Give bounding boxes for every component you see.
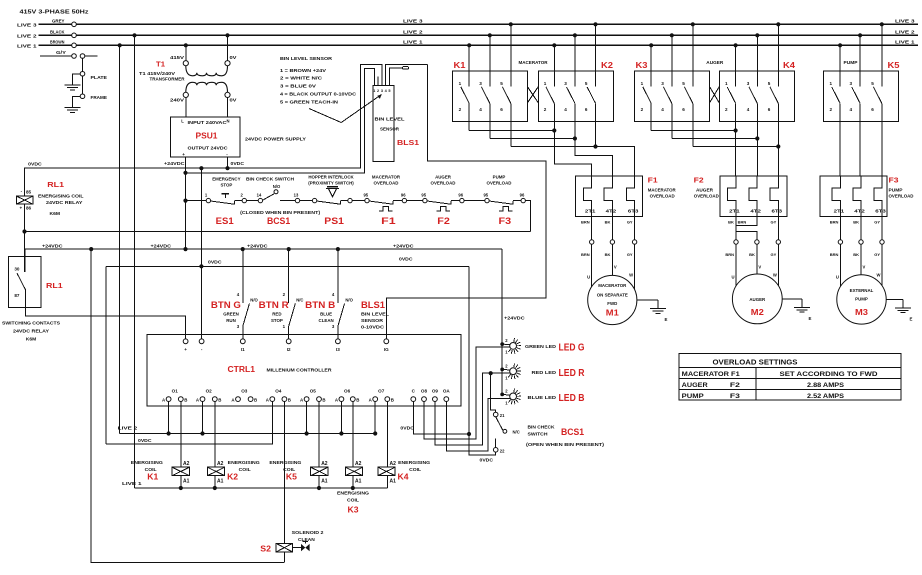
wire K4 contact 5 from supply [777,24,779,86]
wire K4 contact 3 from supply [756,35,758,86]
svg-text:O6: O6 [344,389,351,394]
svg-text:BTN G: BTN G [211,300,241,311]
svg-text:LIVE 2: LIVE 2 [118,426,138,431]
crimp end pin5 [403,67,409,70]
svg-text:ENERGISING: ENERGISING [337,491,370,496]
lamp green LED [510,343,517,350]
junction ES1 feed [183,199,187,203]
wire K2 contact 3 from supply [574,35,576,86]
svg-text:ENERGISING: ENERGISING [131,460,164,465]
junction K5 contact 5 [880,22,884,26]
contact blade at 208.4 [210,201,234,204]
svg-text:(PROXIMITY SWITCH): (PROXIMITY SWITCH) [308,180,354,185]
svg-text:1: 1 [373,89,375,93]
wire K2 contact 5 from supply [595,24,597,86]
junction K3 contact 3 [670,33,674,37]
wire K3 contact 3 from supply [671,35,673,86]
contact blade RL1 [17,273,25,289]
energising coil K2 [207,467,224,476]
contact blade K5 1-2 [832,87,840,103]
contact blade at 367.0 [369,201,393,204]
wire to F1 2T1 [554,131,591,177]
energising coil K3 [345,467,362,476]
svg-text:LIVE 2: LIVE 2 [17,33,37,39]
svg-text:PUMP: PUMP [682,393,704,400]
wire 0VDC down leg [105,266,107,444]
svg-text:4: 4 [661,107,664,112]
svg-text:SWITCHING CONTACTS: SWITCHING CONTACTS [2,321,60,326]
svg-text:3: 3 [381,89,383,93]
svg-text:SWITCH: SWITCH [528,431,548,436]
svg-text:COIL: COIL [409,467,421,472]
overload element symbol [437,207,451,211]
svg-text:LIVE 2: LIVE 2 [895,30,915,36]
wire rail to RL1 30 [24,249,26,272]
svg-text:LIVE 1: LIVE 1 [403,40,423,46]
wire O4B to S2 [283,402,285,544]
svg-text:B: B [288,397,291,402]
svg-text:BLS1: BLS1 [361,300,386,311]
svg-text:PSU1: PSU1 [196,131,218,141]
wire W M2 [777,244,779,285]
svg-text:BK: BK [853,219,859,224]
svg-text:L: L [181,119,184,124]
wire PS1 to F1 [352,200,365,202]
contact blade K3 1-2 [643,87,651,103]
wire G/Y down to frame [82,58,84,94]
terminal chain 487.0 [485,198,489,202]
wire K4 contact 2 down [735,103,737,130]
svg-text:6: 6 [585,107,588,112]
wire F2 4T2 cross to U [736,217,757,240]
wire F2 2T1 cross to V [736,217,757,240]
junction BTN R on rail [287,247,291,251]
svg-text:LIVE 3: LIVE 3 [403,19,423,25]
wire red LED to BCS1 21 [491,373,496,412]
overload F2 box [720,176,787,217]
svg-text:240V: 240V [170,98,185,103]
wire S2 return to +24 rail [91,249,284,562]
stub t2 red LED [502,368,510,371]
wire O8 to green LED 1 [424,347,510,439]
svg-text:O3: O3 [241,389,248,394]
terminal O4 A [270,397,275,402]
svg-text:M1: M1 [606,309,620,318]
svg-text:OVERLOAD: OVERLOAD [889,193,914,198]
svg-text:EXTERNAL: EXTERNAL [850,288,874,293]
contact blade K5 3-4 [852,87,860,103]
svg-text:OA: OA [443,389,451,394]
junction LIVE1 drop [118,43,122,47]
terminal O7 B [385,397,390,402]
svg-text:M3: M3 [855,308,869,317]
svg-text:TRANSFORMER: TRANSFORMER [150,76,185,81]
wire T1 0V to PSU N [227,98,229,118]
svg-text:1: 1 [830,81,833,86]
motor M3 [837,275,886,324]
contact blade K2 5-6 [587,87,595,103]
junction K1 contact 1 [467,43,471,47]
overload element symbol [499,207,513,211]
svg-text:1 = BROWN +24V: 1 = BROWN +24V [280,68,327,73]
svg-text:O5: O5 [310,389,317,394]
svg-text:A1: A1 [183,478,190,484]
svg-text:INPUT 240VAC: INPUT 240VAC [188,120,228,125]
svg-text:4: 4 [850,107,853,112]
svg-text:B: B [391,397,394,402]
svg-text:OVERLOAD: OVERLOAD [694,193,719,198]
wire K5 contact down to F3 [881,103,883,176]
contact blade K1 1-2 [461,87,469,103]
svg-text:COIL: COIL [239,467,251,472]
svg-text:2: 2 [725,107,728,112]
svg-text:BRN: BRN [725,252,734,257]
overload F1 box [575,176,642,217]
motor M1 [588,275,637,324]
svg-text:14: 14 [257,192,262,197]
junction BTN G on rail [241,247,245,251]
wire F3 BK to connector [860,217,862,240]
svg-text:24VDC RELAY: 24VDC RELAY [13,328,49,333]
svg-text:BLACK: BLACK [50,30,65,35]
svg-text:BK: BK [853,252,859,257]
terminal O6 A [339,397,344,402]
svg-text:AUGER: AUGER [706,60,724,65]
wire bottom LIVE 1 rail [135,487,388,489]
svg-text:A1: A1 [217,478,224,484]
terminal CTRL1 I3 [336,339,341,344]
wire K4 contact 6 to F2 [777,147,779,177]
svg-text:OVERLOAD: OVERLOAD [374,180,399,185]
svg-text:6: 6 [871,107,874,112]
svg-text:LED B: LED B [559,392,585,404]
svg-text:O8: O8 [421,389,428,394]
contact blade K3 5-6 [684,87,692,103]
terminal O2 B [212,397,217,402]
svg-text:BIN CHECK: BIN CHECK [528,425,556,430]
wire PSU- down to 0VDC rail [227,157,229,168]
svg-text:6: 6 [500,107,503,112]
wire V M1 [611,244,613,275]
svg-text:RED LED: RED LED [532,370,557,375]
svg-text:BRN: BRN [581,252,590,257]
wire BLS1 pin5 stub [389,68,402,86]
svg-text:IG: IG [384,347,389,352]
svg-text:I1: I1 [241,347,245,352]
svg-text:5: 5 [500,81,503,86]
connector M1 BRN [590,240,594,244]
wire F2 to F3 [464,200,485,202]
connector M3 GY [880,240,884,244]
junction 0VDC rail PSU minus [225,166,229,170]
terminal chain 461.9 [460,198,464,202]
wire output to coil K2 [214,402,216,468]
wire K1 contact 6 down [510,103,512,146]
svg-text:+: + [20,206,23,211]
wire RL1 87 to CTRL plus [25,290,185,339]
svg-text:RL1: RL1 [46,281,63,290]
junction K4 contact 3 [755,33,759,37]
svg-text:A2: A2 [355,461,362,467]
svg-text:G/Y: G/Y [56,50,66,55]
svg-text:A1: A1 [390,478,397,484]
contact blade K2 1-2 [546,87,554,103]
svg-text:95: 95 [363,192,368,197]
overload element symbol [379,207,393,211]
wire K5 contact down to F3 [859,103,861,176]
junction K3 contact 5 [691,22,695,26]
svg-text:MACERATOR: MACERATOR [519,60,549,65]
svg-text:2: 2 [641,107,644,112]
junction T1 415V on LIVE1 [184,43,188,47]
table line 2 [679,378,901,380]
svg-text:O9: O9 [432,389,439,394]
svg-text:CLEAN: CLEAN [319,318,334,323]
svg-text:B: B [254,397,257,402]
svg-text:N: N [227,119,230,124]
svg-text:PUMP: PUMP [844,60,858,65]
svg-text:U: U [731,275,734,280]
junction LIVE2 drop [132,33,136,37]
contact blade K2 3-4 [567,87,575,103]
svg-text:2T1: 2T1 [729,208,740,213]
svg-text:OVERLOAD: OVERLOAD [487,180,512,185]
svg-text:22: 22 [500,448,505,453]
svg-text:4 = BLACK OUTPUT 0-10VDC: 4 = BLACK OUTPUT 0-10VDC [280,91,357,96]
svg-text:LIVE 3: LIVE 3 [895,19,915,25]
svg-text:BRN: BRN [581,219,590,224]
svg-text:6T3: 6T3 [772,208,783,213]
svg-text:+: + [182,152,185,157]
svg-text:STOP: STOP [220,182,232,187]
junction LED common 0VDC [467,432,471,436]
wire F2 6T3 down [777,217,779,240]
svg-text:N/O: N/O [273,184,281,189]
svg-text:3: 3 [850,81,853,86]
svg-text:LIVE 1: LIVE 1 [895,40,915,46]
wire V M2 [756,244,758,274]
svg-text:STOP: STOP [271,318,283,323]
svg-text:GY: GY [874,219,880,224]
svg-text:LIVE 3: LIVE 3 [17,22,37,28]
terminal BCS1 NC point [503,429,507,433]
junction S2 return on rail [89,247,93,251]
wire F1 BRN to connector [591,217,593,240]
energising coil K4 [378,467,395,476]
wire U M3 [839,244,841,286]
wire F3 96 down [525,201,530,232]
wire W M3 [881,244,883,285]
svg-text:2: 2 [459,107,462,112]
svg-text:F3: F3 [889,176,899,185]
svg-text:BIN LEVEL: BIN LEVEL [375,116,405,121]
wire K1-K2 link 4 [490,138,575,140]
terminal CTRL1 I2 [286,339,291,344]
svg-text:415V 3-PHASE 50Hz: 415V 3-PHASE 50Hz [20,10,90,16]
svg-text:MACERATOR: MACERATOR [648,188,677,193]
transformer T1 primary winding [186,66,228,76]
junction RL1 coil return [22,229,26,233]
terminal O2 A [200,397,205,402]
wire K5 contact 3 from supply [859,35,861,86]
ground M3 [895,308,911,313]
terminal chain 424.9 [423,198,427,202]
svg-text:30: 30 [14,267,20,272]
wire S2 to return [283,552,285,563]
svg-text:4: 4 [479,107,482,112]
svg-text:N/O: N/O [345,297,353,302]
terminal 2 red LED [500,368,504,372]
svg-text:AUGER: AUGER [435,175,452,180]
svg-text:0VDC: 0VDC [138,438,152,443]
terminal chain 523.2 [521,198,525,202]
junction A stub [305,431,309,435]
wire BTN B from +24 rail [337,249,339,303]
wire K1 contact 5 from supply [510,24,512,86]
wire 0VDC to O4A [106,402,272,444]
wire K4 contact 4 to F2 [756,139,758,177]
contact blade at 314.6 [317,201,341,204]
svg-text:2.88 AMPS: 2.88 AMPS [807,382,844,389]
svg-text:K1: K1 [454,61,467,70]
wire K1 contact 3 from supply [489,35,491,86]
svg-text:ON SEPARATE: ON SEPARATE [597,292,628,297]
wire LIVE2 to T1 0V [227,35,229,60]
wire W M1 [634,244,636,289]
wire G/Y [40,55,72,57]
svg-text:COIL: COIL [347,497,359,502]
heater element F1 6T3 [626,176,634,217]
wire U M2 [735,244,737,286]
wire LIVE1 to T1 415V [185,45,187,60]
svg-text:0VDC: 0VDC [208,260,222,265]
svg-text:F1: F1 [648,176,658,185]
svg-text:0VDC: 0VDC [28,161,42,166]
terminal chain 260.4 [258,198,262,202]
wire K2 contact 1 from supply [553,45,555,86]
svg-text:K3: K3 [636,61,649,70]
junction K4 link 6 [776,144,780,148]
contact blade BTN B [338,304,345,327]
heater element F2 6T3 [770,176,778,217]
svg-text:24VDC POWER SUPPLY: 24VDC POWER SUPPLY [245,137,306,142]
svg-text:O2: O2 [206,389,213,394]
transformer T1 secondary winding [186,82,228,92]
svg-text:BCS1: BCS1 [267,216,290,226]
svg-text:SENSOR: SENSOR [361,318,384,323]
svg-text:21: 21 [500,413,505,418]
svg-text:3: 3 [661,81,664,86]
wire K3 contact 2 down [650,103,652,130]
svg-text:A2: A2 [183,461,190,467]
connector M2 BRN [734,240,738,244]
mechanical link K1-K2 [528,87,539,103]
svg-text:F1: F1 [381,216,395,226]
svg-text:4: 4 [564,107,567,112]
terminal OA [444,397,449,402]
svg-text:K3: K3 [348,506,360,515]
svg-text:E: E [809,316,812,321]
svg-text:K6M: K6M [50,211,61,216]
terminal O4 B [282,397,287,402]
svg-text:OUTPUT 24VDC: OUTPUT 24VDC [188,146,229,151]
junction K2 contact 1 [552,43,556,47]
svg-text:SENSOR: SENSOR [380,126,400,131]
wire F1 to F2 [407,200,423,202]
svg-text:24VDC RELAY: 24VDC RELAY [46,200,82,205]
connector M1 GY [632,240,636,244]
svg-text:96: 96 [401,192,406,197]
heater element F1 2T1 [584,176,592,217]
svg-text:E: E [665,317,668,322]
contactor K3 box [635,71,710,122]
wire F1 GY to connector [634,217,636,240]
terminal BCS1 N/O point [274,190,278,194]
wire K3-K4 link 2 [651,130,735,132]
junction A stub [167,431,171,435]
svg-text:2: 2 [544,107,547,112]
terminal chain 367.0 [365,198,369,202]
svg-text:COIL: COIL [283,467,295,472]
svg-text:0VDC: 0VDC [400,426,414,431]
energising coil K1 [172,467,189,476]
svg-text:OVERLOAD: OVERLOAD [431,180,456,185]
svg-text:LED R: LED R [559,367,585,379]
table line 3 [679,389,901,391]
svg-text:ENERGISING COIL: ENERGISING COIL [38,194,84,199]
mushroom head ES1 [221,193,229,195]
terminal CTRL1 + [183,339,188,344]
wire K4 contact 2 to F2 [735,131,737,177]
svg-text:1: 1 [641,81,644,86]
svg-text:CLEAN: CLEAN [298,537,315,542]
terminal chain 208.4 [206,198,210,202]
svg-text:U: U [587,275,590,280]
svg-text:3: 3 [479,81,482,86]
svg-text:SET ACCORDING TO FWD: SET ACCORDING TO FWD [780,371,879,378]
svg-text:GREEN: GREEN [223,311,239,316]
svg-text:5: 5 [585,81,588,86]
terminal 22 [493,448,498,453]
wire K2 contact 4 down [574,103,576,138]
svg-text:OVERLOAD SETTINGS: OVERLOAD SETTINGS [713,359,798,366]
wire 0VDC link line [106,265,469,267]
valve symbol S2 [292,547,301,549]
wire output to coil K3 [352,402,354,468]
svg-text:S2: S2 [260,543,271,553]
svg-text:3: 3 [747,81,750,86]
heater element F3 2T1 [832,176,840,217]
terminal CTRL1 IG [384,339,389,344]
svg-text:N/C: N/C [296,297,303,302]
svg-text:PS1: PS1 [324,216,344,226]
junction K5 A1 [317,486,321,490]
ground M2 [794,307,810,312]
svg-text:415V: 415V [170,55,185,60]
wire K3 contact 4 down [671,103,673,138]
connector G/Y 1 [72,54,77,59]
energising coil K5 [311,467,328,476]
wire F1 BK to connector [611,217,613,240]
terminal chain 314.6 [312,198,316,202]
svg-text:BRN: BRN [830,219,839,224]
junction K2 contact 5 [593,22,597,26]
wire K3-K4 link 4 [672,138,758,140]
wire BTN G from +24 rail [242,249,244,303]
junction A stub [373,431,377,435]
svg-text:GREY: GREY [52,19,65,24]
wire U M1 [591,244,593,286]
